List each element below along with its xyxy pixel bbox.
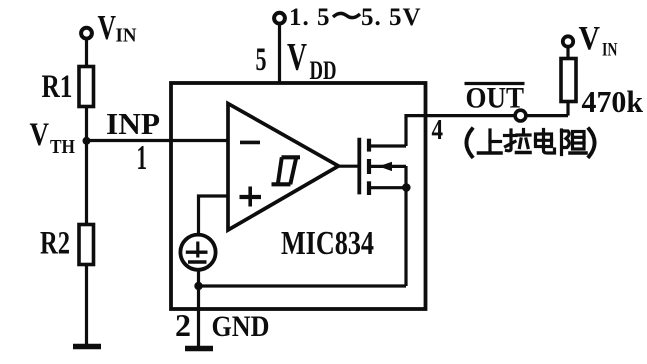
svg-text:INP: INP <box>106 106 160 141</box>
svg-text:IN: IN <box>602 40 618 61</box>
svg-text:R2: R2 <box>40 226 70 262</box>
svg-text:2: 2 <box>175 307 191 343</box>
svg-text:MIC834: MIC834 <box>281 225 374 262</box>
svg-text:4: 4 <box>432 114 444 146</box>
svg-text:5: 5 <box>256 42 267 78</box>
svg-text:1: 1 <box>137 138 148 177</box>
svg-text:470k: 470k <box>582 84 644 119</box>
svg-text:1. 5: 1. 5 <box>289 4 331 31</box>
svg-text:5. 5V: 5. 5V <box>361 4 422 31</box>
svg-text:V: V <box>287 36 307 79</box>
svg-text:IN: IN <box>116 25 138 47</box>
svg-text:V: V <box>579 20 601 57</box>
svg-text:V: V <box>98 8 117 47</box>
svg-text:R1: R1 <box>42 69 73 105</box>
svg-text:OUT: OUT <box>466 82 525 115</box>
svg-text:DD: DD <box>310 56 337 85</box>
svg-text:TH: TH <box>50 136 75 158</box>
svg-text:GND: GND <box>212 310 270 343</box>
svg-text:V: V <box>30 117 50 153</box>
